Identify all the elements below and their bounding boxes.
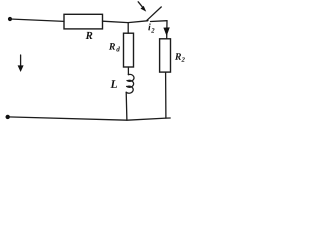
wire: bottom rail [8,117,171,120]
current i2 arrowhead on right wire [163,27,169,36]
resistor R2 body [160,39,171,72]
switch actuation arrow shaft [138,2,143,8]
inductor L coil [126,74,134,93]
left port direction arrowhead [18,65,24,72]
left port direction arrow shaft [20,55,22,68]
wire: switch to top-right corner [151,20,168,23]
label R2 [175,53,185,62]
switch S pivot contact [146,19,148,21]
label L [110,80,117,88]
wire: inductor L to bottom wire [125,92,128,120]
wire: top-left terminal to resistor R [10,19,64,21]
node: bottom-left terminal [6,115,10,119]
wire: Rd to inductor L [127,67,129,75]
node: top-left terminal [8,17,12,21]
label R [86,32,93,39]
wire: resistor R to junction A [103,21,129,22]
resistor Rd body [124,33,134,67]
label Rd [109,43,120,51]
label i2 [148,23,154,32]
wire: R2 down to bottom wire [165,72,167,118]
switch actuation arrowhead [141,6,147,12]
wire: junction down to resistor Rd [127,23,129,34]
node A: junction of middle branch [128,21,147,23]
wire: top-right corner down to R2 [166,21,168,39]
resistor R1 (R) body [64,14,103,29]
switch S blade [148,7,162,20]
